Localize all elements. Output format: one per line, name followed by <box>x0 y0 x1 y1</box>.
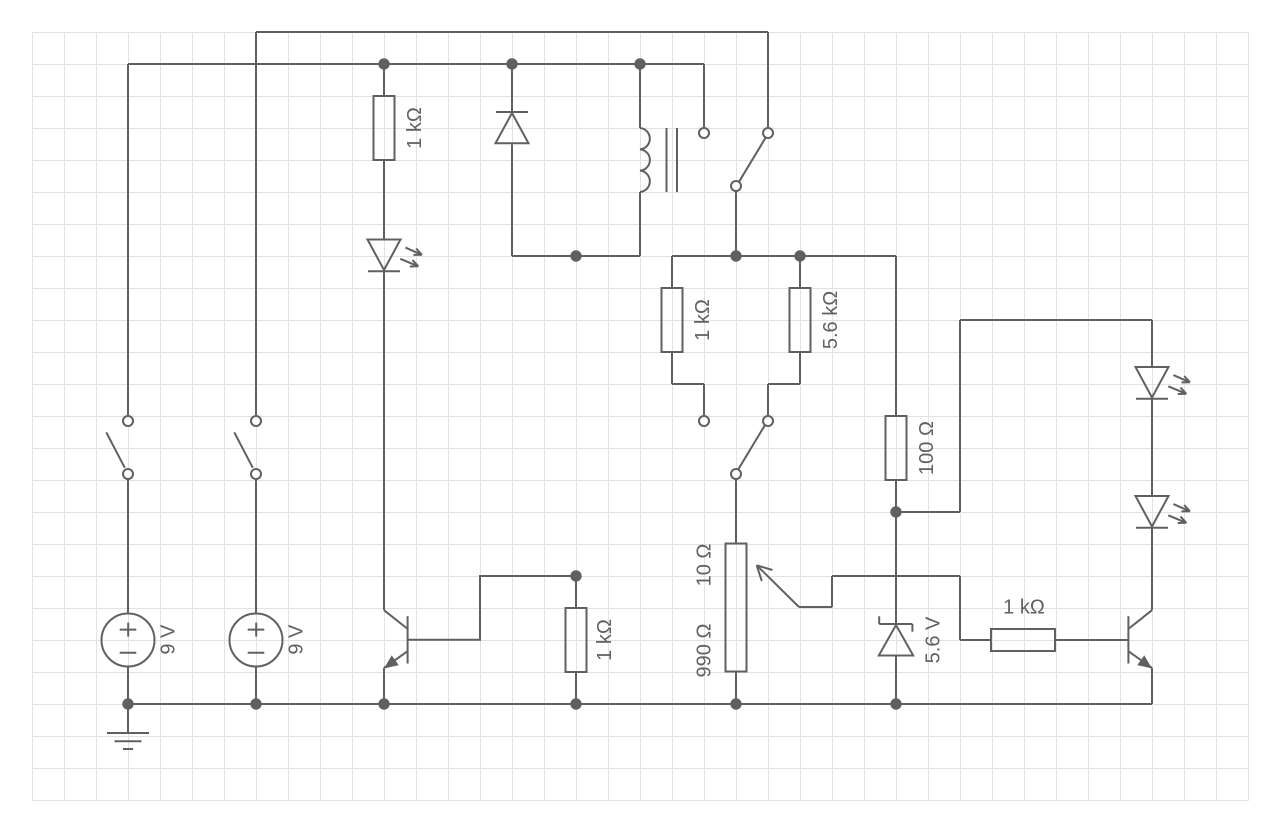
wire LED branch riser <box>959 320 961 512</box>
ground <box>127 704 129 733</box>
resistor R1 1 kΩ <box>374 96 395 160</box>
node R4 bottom <box>890 506 901 517</box>
potentiometer POT1 wiper arrow <box>757 565 799 607</box>
voltage source B1 9 V <box>102 614 155 667</box>
wire LED1 to Q1 collector <box>383 272 385 610</box>
wire D1 to node snub <box>511 144 513 256</box>
node rail A / coil <box>634 58 645 69</box>
node rail A / R1 <box>378 58 389 69</box>
wire LED2 to LED3 <box>1151 399 1153 496</box>
svg-text:5.6 V: 5.6 V <box>923 616 945 663</box>
node ground rail / B2 <box>250 698 261 709</box>
wire wiper horizontal 2 <box>832 575 960 577</box>
node rail A / D1 <box>506 58 517 69</box>
wire S2 common to potentiometer <box>735 479 737 544</box>
wire to switch S2 throw 2 <box>767 384 769 416</box>
wire zener bottom lead <box>895 657 897 705</box>
node ground rail / Q1 emitter <box>378 698 389 709</box>
svg-text:10 Ω: 10 Ω <box>694 544 716 587</box>
wire S3 to battery B1 <box>127 479 129 614</box>
wire Q2 emitter to rail <box>1151 668 1153 704</box>
relay K1 core bars <box>666 128 668 192</box>
wire relay common down <box>735 191 737 256</box>
node snub / base riser <box>570 250 581 261</box>
node ground rail / zener <box>890 698 901 709</box>
wire mid rail horizontal <box>672 255 896 257</box>
node mid rail / relay common <box>730 250 741 261</box>
wire R1 top lead <box>383 64 385 96</box>
wire R4 bottom lead <box>895 480 897 512</box>
switch S4 blade <box>234 432 253 467</box>
LED LED3 <box>1136 496 1169 527</box>
switch S2 blade <box>738 426 764 470</box>
node ground rail / B1 <box>122 698 133 709</box>
switch S3 contacts <box>123 416 133 426</box>
wire R3 bottom lead <box>799 352 801 384</box>
LED LED1 <box>368 240 401 271</box>
wire rail A to relay throw 1 <box>703 64 705 128</box>
wire B1 to ground rail <box>127 667 129 705</box>
transistor Q1 <box>384 610 408 629</box>
voltage source B2 9 V <box>230 614 283 667</box>
wire R5 to Q2 base <box>1055 639 1128 641</box>
relay K1 switch blade <box>739 138 765 182</box>
wire LED3 to Q2 collector <box>1151 528 1153 610</box>
potentiometer POT1 body <box>726 544 747 672</box>
wire zener top lead <box>895 512 897 624</box>
wire base junction to R6 <box>575 576 577 608</box>
wire bottom ground rail <box>128 703 1152 705</box>
wire R2 top lead <box>671 256 673 288</box>
wire rail B to relay throw 2 <box>767 32 769 128</box>
wire R6 to ground rail <box>575 672 577 704</box>
wire snub horizontal <box>512 255 640 257</box>
resistor R6 1 kΩ <box>566 608 587 672</box>
switch S4 contacts <box>251 416 261 426</box>
wire battery2 to rail B <box>255 32 257 416</box>
wire wiper drop <box>959 576 961 640</box>
diode D1 <box>496 111 528 113</box>
wire LED branch top horizontal <box>960 319 1152 321</box>
switch S3 blade <box>106 432 125 467</box>
wire top rail A horizontal <box>128 63 704 65</box>
wire top rail B horizontal <box>256 31 768 33</box>
svg-text:990 Ω: 990 Ω <box>694 624 716 678</box>
wire S4 to battery B2 <box>255 479 257 614</box>
relay K1 switch contacts <box>699 128 709 138</box>
wire R1 to LED1 <box>383 160 385 240</box>
wire battery1 to rail A <box>127 64 129 416</box>
wire to switch S2 throw 1 <box>703 384 705 416</box>
wire relay coil bottom lead <box>639 192 641 256</box>
wire B2 to ground rail <box>255 667 257 705</box>
svg-text:9 V: 9 V <box>157 624 179 655</box>
svg-text:9 V: 9 V <box>285 624 307 655</box>
wire to R5 <box>960 639 991 641</box>
resistor R3 5.6 kΩ <box>790 288 811 352</box>
wire R2 jog horizontal <box>672 383 704 385</box>
wire Q1 emitter to rail <box>383 668 385 704</box>
wire R4 top lead <box>895 256 897 416</box>
svg-text:5.6 kΩ: 5.6 kΩ <box>820 291 842 349</box>
svg-text:1 kΩ: 1 kΩ <box>594 619 616 661</box>
svg-text:1 kΩ: 1 kΩ <box>1003 597 1045 619</box>
svg-text:1 kΩ: 1 kΩ <box>692 299 714 341</box>
resistor R2 1 kΩ <box>662 288 683 352</box>
wire R3 top lead <box>799 256 801 288</box>
switch S2 contacts <box>699 416 709 426</box>
zener diode Z1 5.6 V <box>879 623 912 625</box>
wire Q1 base path <box>408 576 576 640</box>
wire diode D1 top lead <box>511 64 513 112</box>
transistor Q2 <box>1128 610 1152 629</box>
node mid rail / R3 <box>794 250 805 261</box>
node ground rail / R6 <box>570 698 581 709</box>
wire wiper horizontal 1 <box>799 606 832 608</box>
wire node to LED branch <box>896 511 960 513</box>
resistor R4 100 Ω <box>886 416 907 480</box>
wire wiper riser <box>831 576 833 607</box>
svg-text:1 kΩ: 1 kΩ <box>404 107 426 149</box>
LED LED2 <box>1136 367 1169 398</box>
wire R2 bottom lead <box>671 352 673 384</box>
wire to LED2 <box>1151 320 1153 367</box>
svg-text:100 Ω: 100 Ω <box>916 421 938 475</box>
resistor R5 1 kΩ <box>991 629 1055 651</box>
node base junction <box>570 570 581 581</box>
wire R3 jog horizontal <box>768 383 800 385</box>
wire POT1 bottom lead <box>735 672 737 705</box>
relay K1 coil <box>640 128 650 192</box>
wire relay coil top lead <box>639 64 641 128</box>
node ground rail / POT1 <box>730 698 741 709</box>
